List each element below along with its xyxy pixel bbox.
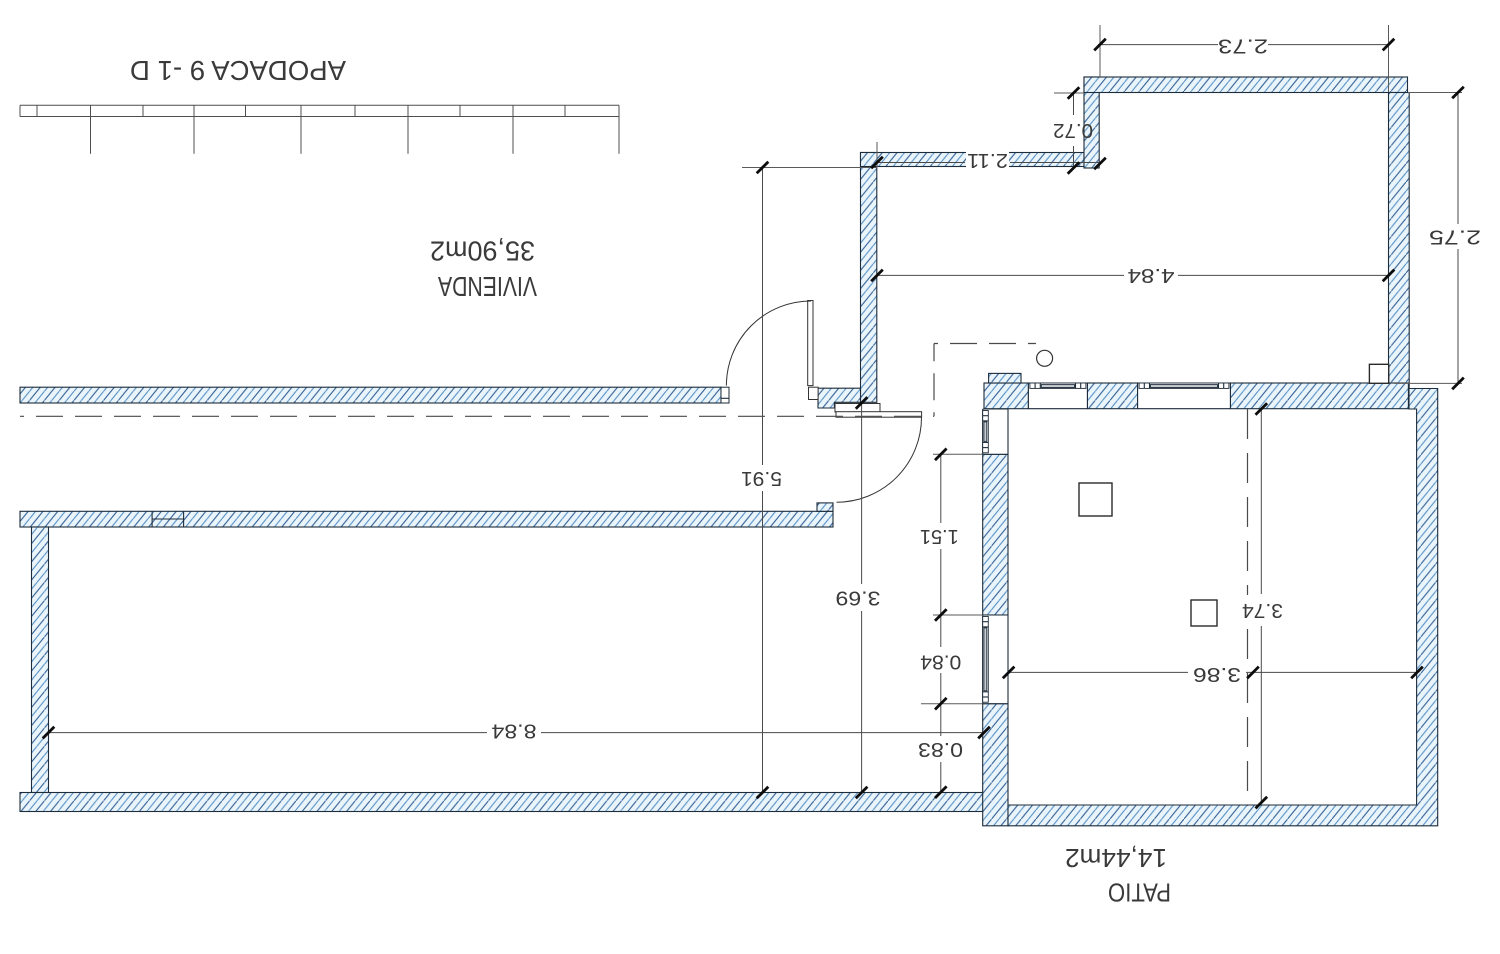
tick chain y454 <box>935 449 947 461</box>
top room right wall <box>1389 93 1410 389</box>
svg-text:2.75: 2.75 <box>1429 226 1481 248</box>
tick 2.11 right <box>1094 158 1106 170</box>
tick chain y792 <box>935 786 947 798</box>
wall band middle of vivienda (y511) <box>20 511 833 527</box>
svg-text:1.51: 1.51 <box>920 525 959 547</box>
door 2 leaf (entry to patio hall) <box>836 412 922 418</box>
tick 2.11 left <box>871 157 883 169</box>
dashed axis line vertical at x934 <box>933 344 935 417</box>
dimension line 2.73 <box>1098 44 1218 46</box>
wall band 2.11 (entry top) <box>861 153 1085 167</box>
small square at top room inner corner <box>1369 364 1388 383</box>
entry wall bottom block <box>818 388 861 408</box>
tick 3.86 left <box>1003 667 1015 679</box>
lintel marker in middle band <box>152 511 184 527</box>
door 2 threshold <box>835 404 880 413</box>
svg-text:14,44m2: 14,44m2 <box>1065 843 1167 873</box>
tick 2.75 top <box>1452 87 1464 99</box>
tick 3.86 right <box>1411 667 1423 679</box>
dashed axis line horizontal main <box>20 415 934 417</box>
svg-text:0.83: 0.83 <box>918 738 963 760</box>
door 1 jamb plate <box>809 387 819 399</box>
svg-text:PATIO: PATIO <box>1108 878 1171 908</box>
pilaster above patio band <box>989 373 1021 383</box>
wall band top of vivienda (y387) <box>20 387 721 403</box>
extension line for 2.73 right <box>1388 25 1390 92</box>
stair long tread tick 6 <box>618 105 620 154</box>
stair long tread tick 1 <box>90 105 92 154</box>
stair symbol rail top line <box>20 104 619 106</box>
left vertical wall of vivienda <box>32 527 49 793</box>
column square 2 in patio <box>1191 600 1217 626</box>
svg-text:0.72: 0.72 <box>1053 119 1093 141</box>
bottom wall band of vivienda <box>20 793 983 812</box>
svg-text:4.84: 4.84 <box>1128 264 1175 286</box>
column square 1 in patio <box>1079 483 1112 516</box>
tick 5.91 bottom <box>757 787 769 799</box>
tick 3.69 top <box>856 397 868 409</box>
stair short tread tick 2 <box>142 105 144 116</box>
extension line for 2.73 left <box>1099 25 1101 77</box>
extension line at y615 <box>933 614 983 616</box>
door 1 swing arc <box>726 301 811 386</box>
window upper in patio left wall <box>983 409 1008 454</box>
dimension line 3.69 <box>861 403 863 584</box>
svg-text:APODACA 9 -1 D: APODACA 9 -1 D <box>130 55 346 86</box>
patio top band segment B <box>1087 383 1137 409</box>
stair short tread tick 5 <box>459 105 461 116</box>
top room top band <box>1084 77 1408 93</box>
dimension line 8.84 <box>49 732 488 734</box>
patio left wall upper segment <box>983 454 1008 615</box>
tick 4.84 right <box>1383 270 1395 282</box>
door 2 swing arc <box>837 417 922 502</box>
tick 5.91 top <box>757 162 769 174</box>
svg-text:3.74: 3.74 <box>1242 599 1283 621</box>
white mask behind 2.11 text <box>966 151 1009 170</box>
tick 3.74 top <box>1256 403 1268 415</box>
ceiling lamp circle <box>1037 350 1053 366</box>
stair short tread tick 6 <box>564 105 566 116</box>
stair symbol left end cap <box>19 105 21 116</box>
tick chain y704 <box>935 698 947 710</box>
stair long tread tick 3 <box>300 105 302 154</box>
window 2 in patio top band <box>1138 383 1231 409</box>
extension line for 2.75 top <box>1408 92 1462 94</box>
dimension line 2.75 <box>1457 93 1459 225</box>
patio right and bottom L-wall <box>1008 389 1438 826</box>
tick 2.75 bottom <box>1452 378 1464 390</box>
tick 8.84 left <box>43 727 55 739</box>
dimension line 2.11 <box>877 162 965 164</box>
dimension line 3.86 <box>1009 671 1188 673</box>
patio top band segment C <box>1230 383 1408 409</box>
dashed axis line vertical in patio <box>1247 409 1249 806</box>
step block at right end of middle band <box>817 503 833 511</box>
svg-text:3.69: 3.69 <box>836 587 881 609</box>
tick 2.73 right <box>1383 39 1395 51</box>
stair short tread tick 1 <box>36 105 38 116</box>
svg-text:VIVIENDA: VIVIENDA <box>438 271 537 302</box>
tick 0.72 bottom <box>1068 162 1080 174</box>
svg-text:2.73: 2.73 <box>1218 35 1268 57</box>
tick 3.86 mid <box>1247 667 1259 679</box>
tick 8.84 right <box>978 727 990 739</box>
window 1 in patio top band <box>1028 383 1087 409</box>
dimension line 3.74 <box>1260 409 1262 594</box>
stair short tread tick 4 <box>354 105 356 116</box>
svg-text:8.84: 8.84 <box>492 720 537 742</box>
tick 4.84 left <box>871 270 883 282</box>
stair long tread tick 5 <box>512 105 514 154</box>
patio left wall lower segment <box>983 704 1008 826</box>
svg-text:0.84: 0.84 <box>920 651 961 673</box>
extension line for 5.91 top <box>742 167 877 169</box>
extension line for 2.11 left <box>876 142 878 167</box>
dimension line 4.84 <box>877 274 1124 276</box>
extension line for 0.72 top <box>1054 92 1084 94</box>
extension line at y454 <box>933 453 983 455</box>
extension line at y703.7 <box>921 703 983 705</box>
dashed axis line horizontal at y343 <box>934 343 1036 345</box>
dimension line 1.51-0.84-0.83 chain <box>940 454 942 523</box>
dimension line 5.91 <box>762 168 764 466</box>
tick chain y615 <box>935 609 947 621</box>
door 1 leaf (entry to vivienda) <box>808 301 813 386</box>
top room left wall <box>1084 77 1099 168</box>
stair short tread tick 3 <box>245 105 247 116</box>
svg-text:5.91: 5.91 <box>741 467 782 489</box>
door jamb block at end of top band <box>721 387 729 403</box>
dimension line 0.72 <box>1073 93 1075 115</box>
svg-text:3.86: 3.86 <box>1193 663 1241 685</box>
window lower in patio left wall <box>983 615 1008 704</box>
tick 2.73 left <box>1094 39 1106 51</box>
svg-text:2.11: 2.11 <box>967 149 1008 171</box>
patio top-left corner wall block <box>984 383 1028 409</box>
svg-text:35,90m2: 35,90m2 <box>430 236 535 267</box>
tick 3.74 bottom <box>1256 797 1268 809</box>
stair long tread tick 4 <box>407 105 409 154</box>
entry vertical wall (x861) <box>861 153 877 403</box>
stair symbol rail bottom line <box>20 116 619 118</box>
tick 3.69 bottom <box>856 787 868 799</box>
stair long tread tick 2 <box>193 105 195 154</box>
white mask behind 3.74 text <box>1240 595 1285 625</box>
extension line for 2.75 bottom <box>1394 382 1462 384</box>
tick 0.72 top <box>1068 87 1080 99</box>
